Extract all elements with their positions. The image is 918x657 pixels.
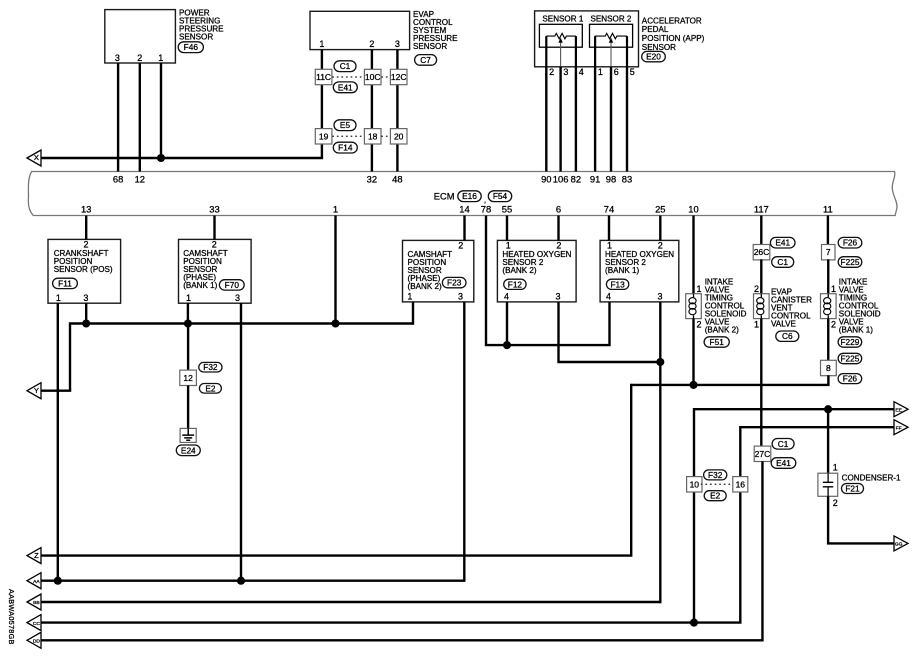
off-page connector arrow CC (to other sheet) [27, 615, 41, 631]
dashed connector link 18-20 [381, 135, 390, 137]
connector ref E41 (27C) [771, 458, 796, 469]
connector ref E2 (at 12) [199, 383, 221, 393]
connector ref F26 (below 8) [838, 374, 862, 384]
connector ref F229 [838, 337, 862, 347]
potentiometer sensor 2 track end drops [595, 36, 627, 67]
svg-text:1: 1 [831, 284, 836, 294]
svg-text:C1: C1 [778, 439, 789, 449]
wire y385 line left end down to Z line [41, 384, 631, 556]
connector ref F32 (10-16) [704, 470, 727, 480]
connector ref F46 [178, 42, 203, 53]
power steering pressure sensor F46 box [105, 10, 176, 63]
svg-text:E2: E2 [710, 491, 721, 501]
wire FF run [740, 426, 894, 428]
wire F11 pin 1 down to AA line [57, 303, 59, 581]
svg-text:10C: 10C [365, 72, 381, 82]
potentiometer sensor 1 track end drops [546, 36, 576, 67]
svg-text:ECM: ECM [434, 192, 455, 202]
svg-text:2: 2 [696, 320, 701, 330]
connector terminal 8 [821, 360, 837, 375]
wire F23 pin 1 down-left (long node line east end) [412, 302, 414, 325]
potentiometer sensor 2: track with resistor zigzag [595, 33, 627, 38]
svg-text:20: 20 [394, 131, 404, 141]
wire 27C down to DD line [41, 461, 762, 640]
crankshaft position sensor (POS) F11 box [48, 239, 121, 303]
wire ECM 78 down right and up to F13 pin 4 [486, 216, 610, 346]
junction EE chain junction on CC line [690, 619, 698, 627]
junction F11 pin1 junction on AA [54, 577, 62, 585]
svg-text:F14: F14 [338, 143, 353, 153]
svg-text:F51: F51 [710, 337, 725, 347]
junction F46 pin 1 junction on X line [157, 154, 165, 162]
svg-text:Y: Y [34, 386, 39, 395]
off-page connector arrow Y (to other sheet) [27, 383, 41, 399]
connector ref F12 [504, 279, 526, 289]
connector ref F26 (7) [838, 237, 862, 248]
wire F70 pin 1 down to long node line [187, 303, 189, 323]
wire F13 pin 3 down to BB line [659, 302, 661, 603]
svg-text:F32: F32 [203, 362, 218, 372]
wire node X horizontal run [41, 157, 323, 159]
wire ECM 13 to F11 pin 2 [85, 216, 87, 240]
camshaft position sensor (PHASE)(BANK 2) F23 box [403, 240, 474, 302]
svg-text:1: 1 [754, 320, 759, 330]
wire AA line [41, 580, 464, 582]
svg-text:F26: F26 [843, 374, 858, 384]
wire ECM 25 to F13 pin 2 [659, 216, 661, 241]
svg-text:E16: E16 [462, 191, 477, 201]
APP sensor 2 inner box [590, 24, 633, 47]
wire F46 pin 3 to ECM 68 [117, 63, 119, 172]
wire C7 pin 1 segment 11C to 19 [321, 85, 323, 129]
wire F46 pin 2 to ECM 12 [139, 63, 141, 172]
svg-text:C1: C1 [777, 257, 788, 267]
connector terminal 26C [753, 245, 770, 260]
svg-text:2: 2 [754, 284, 759, 294]
svg-text:E41: E41 [775, 238, 790, 248]
junction F12 pin 3 junction on F13 pin 3 wire [656, 358, 664, 366]
junction condenser junction on EE run [824, 405, 832, 413]
svg-text:E41: E41 [776, 458, 791, 468]
wire ECM 117 down to 26C [760, 216, 762, 246]
solenoid coil EVAP canister vent control valve [754, 294, 770, 319]
wire node line to Y arrow [41, 390, 71, 392]
wire APP pin 1 to ECM [594, 67, 596, 172]
wire EE run junction down to condenser [827, 409, 829, 473]
wire APP pin 3 to ECM [559, 67, 561, 172]
svg-text:1: 1 [696, 284, 701, 294]
wire EE corner down through 10 box to CC line [693, 408, 695, 623]
connector ref C6 [776, 331, 799, 341]
connector terminal 10 [687, 477, 702, 492]
wire C7 pin 1 segment 19 to X line [321, 144, 323, 158]
heated oxygen sensor 2 (bank 2) F12 box [497, 240, 576, 302]
svg-text:F225: F225 [841, 257, 860, 267]
svg-text:E2: E2 [205, 383, 216, 393]
svg-text:DD: DD [33, 639, 41, 645]
svg-text:E24: E24 [181, 445, 196, 455]
potentiometer sensor 2 wiper arrow [609, 38, 613, 43]
wire condenser down to GG arrow [828, 496, 894, 543]
connector ref C1 (26C) [772, 257, 794, 268]
wire FF corner down through 16 box to CC line [41, 426, 740, 623]
wire APP pin 5 to ECM [626, 67, 628, 172]
camshaft position sensor (PHASE)(BANK 1) F70 box [179, 239, 252, 303]
svg-text:F13: F13 [610, 279, 625, 289]
svg-text:GG: GG [895, 542, 903, 548]
connector ref F32 (at 12) [199, 362, 222, 372]
connector ref E41 (26C) [770, 237, 795, 248]
solenoid coil F51 [686, 294, 702, 319]
svg-text:F12: F12 [508, 279, 523, 289]
svg-text:E41: E41 [338, 82, 353, 92]
connector ref F13 [606, 279, 628, 289]
connector ref C1 (row1) [334, 61, 356, 72]
wire BB line [41, 601, 660, 603]
svg-text:E20: E20 [646, 52, 661, 62]
wire ECM 1 stub [334, 216, 336, 324]
connector ref F225 (7) [838, 257, 862, 268]
svg-text:26C: 26C [754, 247, 770, 257]
dashed connector link 10C-12C [381, 76, 390, 78]
off-page connector arrow EE (to other sheet) [894, 402, 908, 417]
wire ECM 6 to F12 pin 2 [557, 216, 559, 241]
svg-text:CONDENSER-1: CONDENSER-1 [842, 474, 901, 483]
junction ECM10 junction on y385 line [689, 381, 697, 389]
connector terminal 27C [754, 446, 771, 461]
body ground symbol [180, 428, 196, 442]
wire C7 pin 3 to ECM 48 [396, 50, 398, 172]
wire ECM 10 down to solenoid F51 [692, 216, 694, 295]
svg-text:Z: Z [34, 551, 39, 560]
svg-text:C6: C6 [782, 331, 793, 341]
wire F12 pin 3 down and right to F13 pin 3 wire [559, 302, 661, 362]
connector ref C7 [415, 55, 437, 66]
potentiometer sensor 1 wiper arrow [558, 38, 562, 43]
svg-text:27C: 27C [755, 449, 771, 459]
svg-text:E5: E5 [340, 120, 351, 130]
svg-text:12C: 12C [391, 72, 407, 82]
svg-text:F32: F32 [708, 470, 723, 480]
wire ECM 11 down to 7 box [827, 216, 829, 246]
svg-text:AABWA0578GB: AABWA0578GB [7, 589, 16, 645]
connector terminal 11C [315, 69, 332, 84]
svg-text:1: 1 [833, 462, 838, 472]
svg-text:C7: C7 [420, 55, 431, 65]
svg-text:EE: EE [895, 407, 902, 413]
wire 26C to EVAP vent valve [760, 259, 762, 294]
svg-text:2: 2 [833, 498, 838, 508]
svg-text:12: 12 [183, 373, 193, 383]
wire 8 box down to node line y385 [631, 375, 828, 385]
svg-text:8: 8 [826, 363, 831, 373]
svg-text:11C: 11C [316, 72, 331, 82]
svg-text:18: 18 [368, 131, 378, 141]
wire F12 pin 4 down to 78 node [506, 302, 508, 345]
connector ref F54 [488, 191, 511, 202]
connector terminal 12C [390, 69, 407, 84]
junction ECM 1 junction [331, 319, 339, 327]
svg-text:AA: AA [33, 579, 40, 585]
connector ref E2 (10-16) [704, 491, 726, 501]
wire bank1 solenoid down to 8 box [827, 319, 829, 361]
wire C7 pin 1 down to 11C [321, 50, 323, 70]
wire APP pin 4 to ECM [575, 67, 577, 172]
svg-text:C1: C1 [340, 61, 351, 71]
connector terminal 10C [364, 69, 381, 84]
potentiometer sensor 1: track with resistor zigzag [546, 33, 576, 38]
svg-text:2: 2 [831, 320, 836, 330]
wire F46 pin 1 to node X line [160, 63, 162, 158]
connector ref E20 [642, 51, 666, 61]
wire F70 pin 3 down to AA line [240, 303, 242, 581]
wire ground branch lower [187, 386, 189, 429]
connector ref F23 [442, 277, 466, 287]
wire EE run [694, 408, 894, 410]
svg-text:F23: F23 [447, 278, 462, 288]
junction F70 pin3 junction on AA [237, 577, 245, 585]
wire F70 ground branch upper [187, 324, 189, 371]
wire vent valve down to 27C [760, 319, 762, 447]
off-page connector arrow GG (to other sheet) [894, 536, 908, 551]
connector ref E41 (row1) [333, 82, 357, 93]
wire APP pin 6 to ECM [610, 67, 612, 172]
off-page connector arrow AA (to other sheet) [27, 573, 41, 589]
off-page connector arrow X (to other sheet) [27, 150, 41, 166]
condenser-1 F21 box with capacitor symbol [818, 473, 838, 496]
wire APP pin 2 to ECM [545, 67, 547, 172]
wire ECM 55 to F12 pin 1 [506, 216, 508, 241]
wire C7 pin 2 to ECM 32 [371, 50, 373, 172]
connector ref F14 [333, 142, 357, 153]
EVAP control system pressure sensor C7 box [310, 11, 410, 49]
svg-text:19: 19 [319, 131, 329, 141]
APP sensor 1 inner box [539, 24, 582, 47]
connector ref F21 [842, 484, 864, 494]
wire F23 pin 3 down to AA line corner [463, 302, 465, 582]
junction F70 pin 1 junction [184, 319, 192, 327]
wire 7 box to bank1 solenoid [827, 259, 829, 294]
svg-text:10: 10 [690, 479, 700, 489]
connector terminal 7 [822, 245, 836, 260]
off-page connector arrow DD (to other sheet) [27, 632, 41, 648]
connector ref E24 [176, 445, 200, 456]
connector terminal 18 [364, 129, 381, 144]
svg-text:SENSOR 2: SENSOR 2 [591, 15, 632, 24]
solenoid coil intake valve timing control solenoid valve (bank 1) [821, 294, 837, 319]
heated oxygen sensor 2 (bank 1) F13 box [600, 240, 679, 302]
connector terminal 16 [733, 477, 748, 492]
dashed connector link 11C-10C [332, 76, 364, 78]
connector ref F11 [53, 278, 78, 288]
svg-text:F26: F26 [843, 238, 858, 248]
svg-text:BB: BB [33, 600, 40, 606]
svg-text:7: 7 [826, 247, 831, 257]
connector ref E16 [458, 191, 481, 202]
ECM block (band with break squiggles at both ends) [28, 172, 897, 216]
svg-text:F46: F46 [184, 42, 199, 52]
potentiometer sensor 1 wiper stem [560, 43, 562, 67]
wire sensor ground node line [70, 324, 413, 391]
junction F12 pin 4 junction on 78 run [503, 341, 511, 349]
wire F51 pin 2 down to node line y385 [692, 319, 694, 385]
off-page connector arrow BB (to other sheet) [27, 594, 41, 610]
wire ECM 74 to F13 pin 1 [608, 216, 610, 241]
svg-text:F70: F70 [225, 280, 240, 290]
wire ECM 14 to F23 pin 2 [463, 216, 465, 241]
svg-text:CC: CC [33, 621, 41, 627]
accelerator pedal position (APP) sensor E20 outer box [535, 11, 639, 67]
svg-text:2: 2 [212, 239, 217, 249]
connector terminal 19 [315, 129, 332, 144]
connector ref C1 (27C) [772, 439, 794, 450]
junction F11 pin 3 junction [82, 319, 90, 327]
off-page connector arrow FF (to other sheet) [894, 420, 908, 435]
connector ref F225 (below F229) [838, 353, 862, 363]
svg-text:F21: F21 [845, 484, 860, 494]
svg-text:2: 2 [458, 240, 463, 250]
svg-text:F229: F229 [840, 337, 859, 347]
wire ECM 33 to F70 pin 2 [213, 216, 215, 240]
off-page connector arrow Z (to other sheet) [27, 548, 41, 564]
connector terminal 20 [390, 129, 407, 144]
potentiometer sensor 2 wiper stem [610, 43, 612, 67]
svg-text:SENSOR 1: SENSOR 1 [542, 15, 583, 24]
svg-text:2: 2 [83, 239, 88, 249]
connector ref F51 [704, 337, 729, 347]
wire F11 pin 3 down to long node line [85, 303, 87, 323]
svg-text:16: 16 [736, 479, 746, 489]
svg-text:F11: F11 [58, 278, 72, 288]
dashed connector link 10-16 [701, 483, 733, 485]
svg-text:F225: F225 [840, 354, 859, 364]
connector ref E5 [334, 120, 356, 131]
connector ref F70 [219, 280, 244, 290]
dashed connector link 19-18 [332, 135, 364, 137]
svg-text:X: X [34, 153, 39, 162]
svg-text:F54: F54 [493, 191, 508, 201]
connector terminal 12 [180, 370, 197, 385]
svg-text:FF: FF [896, 425, 902, 431]
